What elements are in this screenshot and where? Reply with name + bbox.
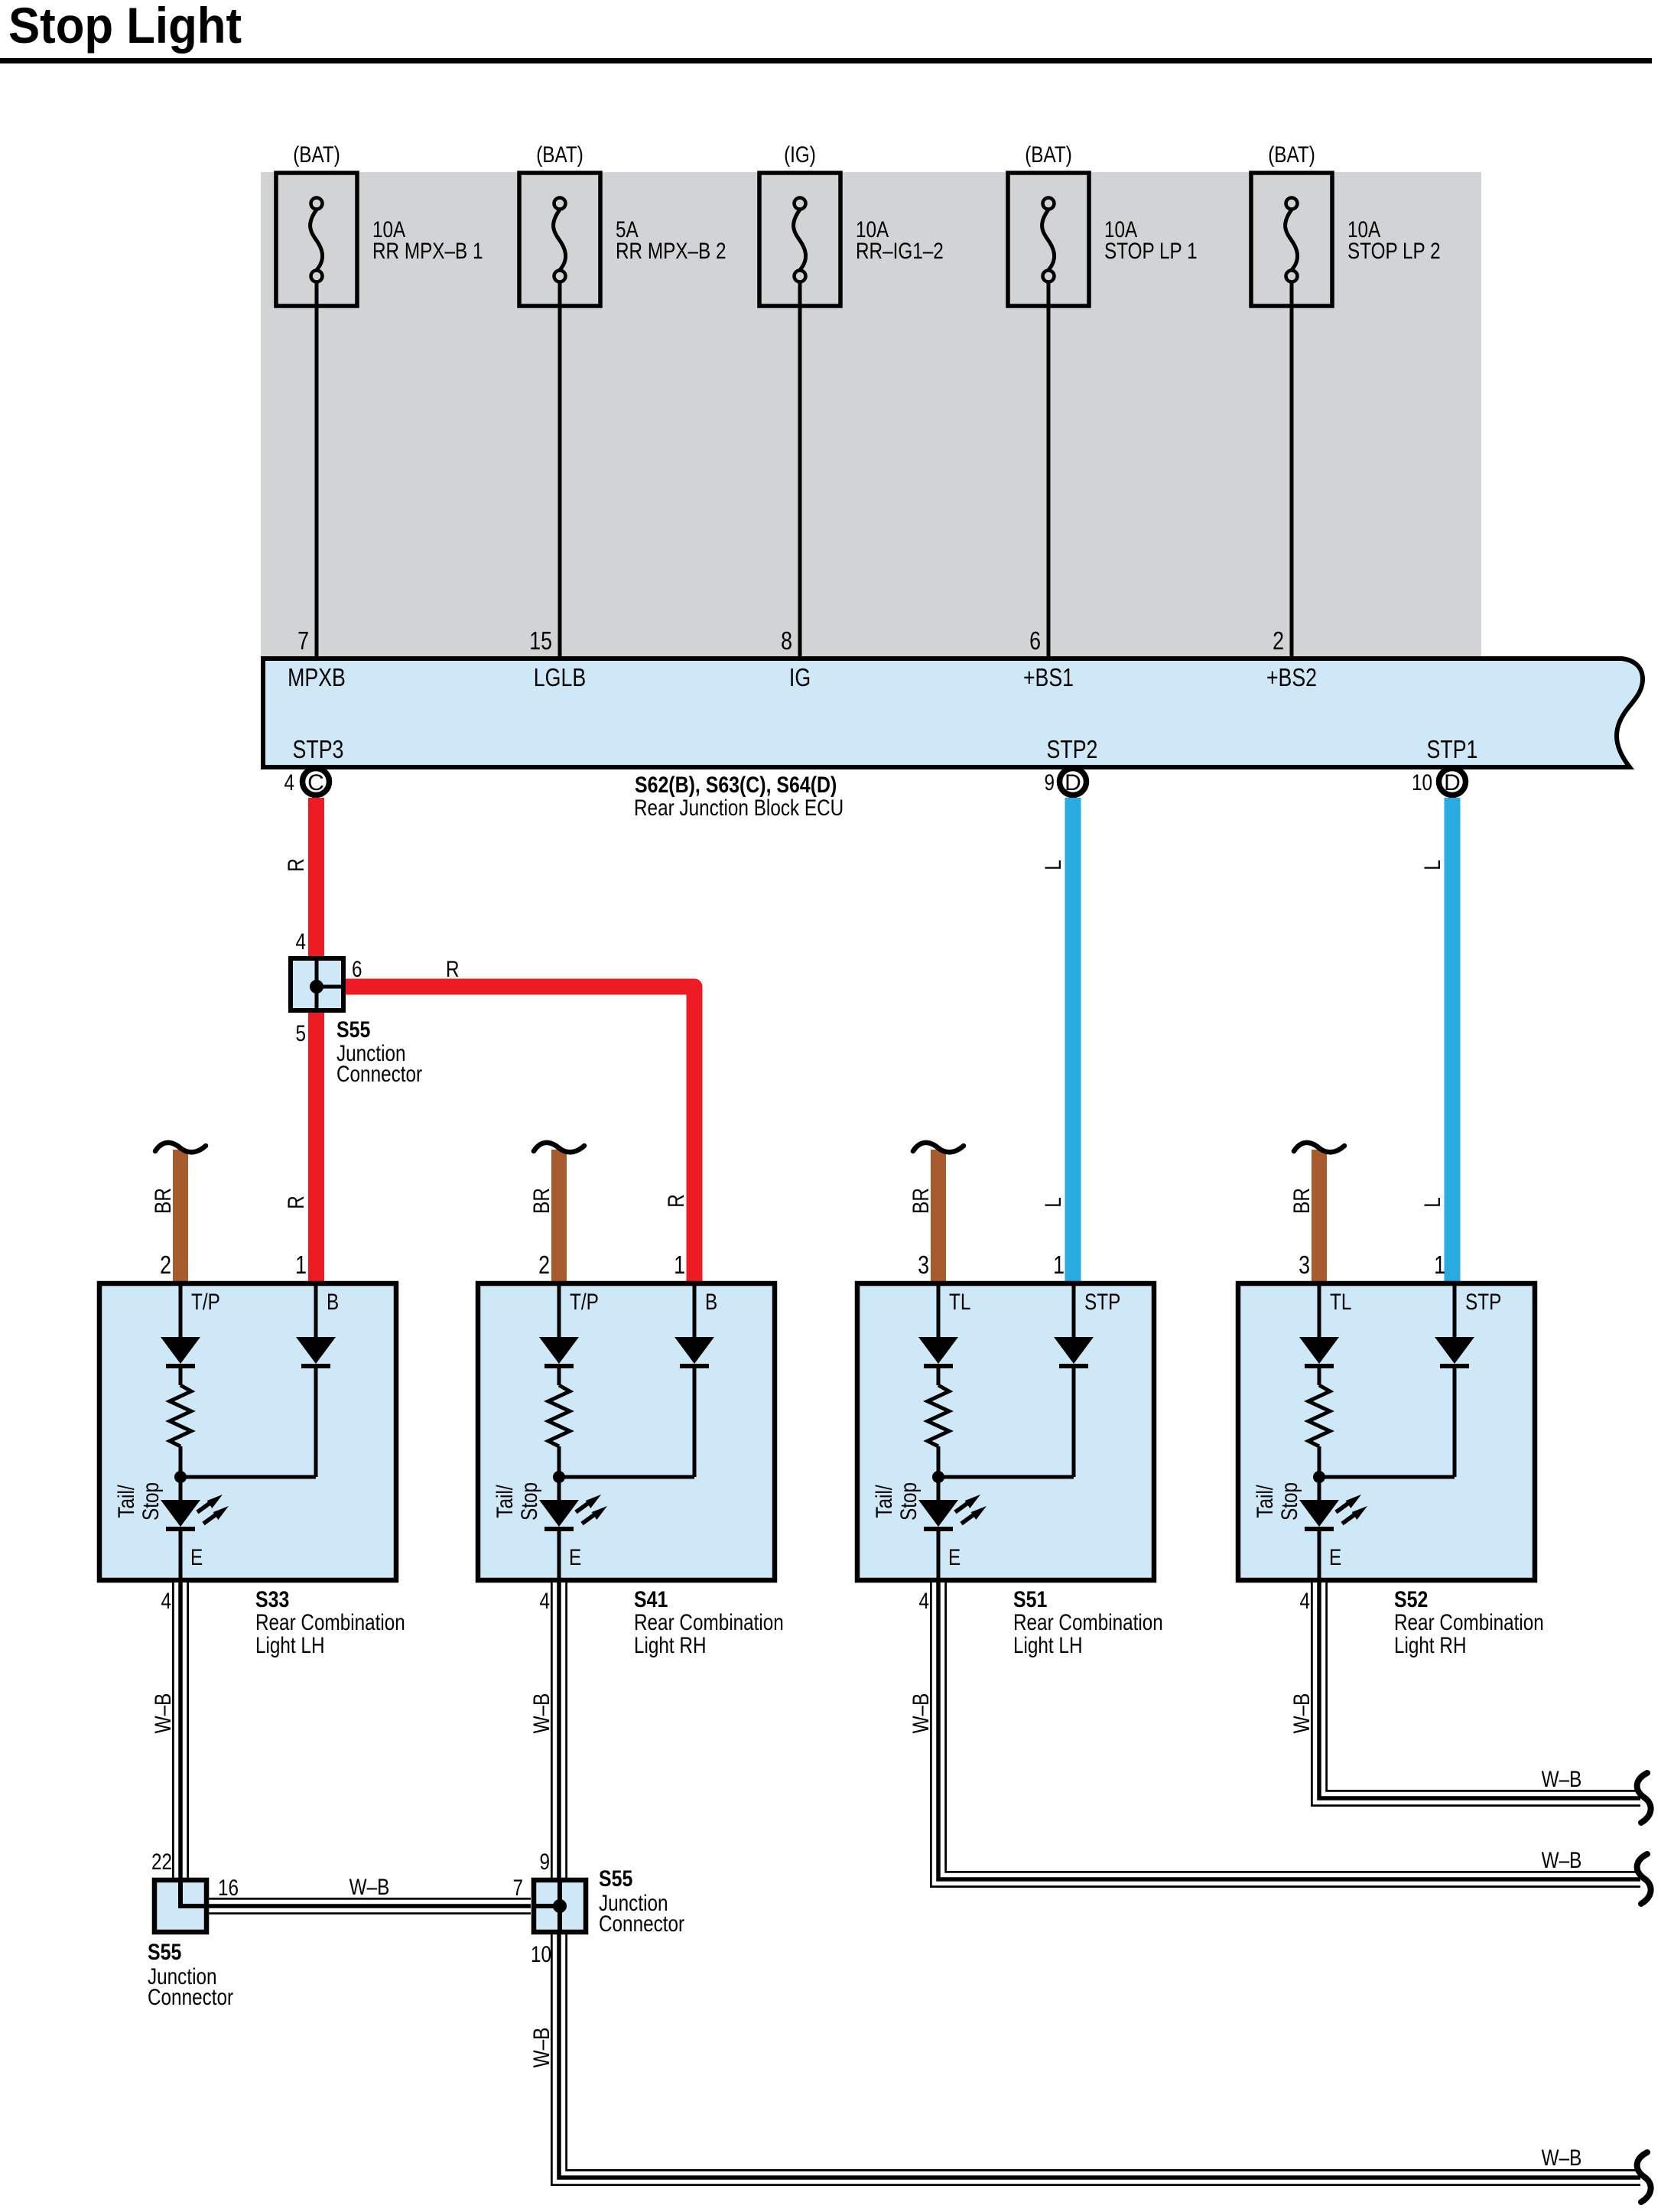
svg-text:W–B: W–B [909, 1693, 934, 1734]
svg-text:Light RH: Light RH [634, 1633, 707, 1658]
svg-text:Light RH: Light RH [1394, 1633, 1467, 1658]
svg-text:STOP LP 2: STOP LP 2 [1347, 239, 1441, 264]
svg-text:Connector: Connector [148, 1985, 233, 2010]
svg-text:W–B: W–B [1542, 2145, 1582, 2171]
svg-text:9: 9 [540, 1849, 551, 1875]
svg-text:(BAT): (BAT) [1268, 142, 1315, 168]
svg-text:15: 15 [529, 626, 552, 655]
svg-text:D: D [1065, 770, 1081, 795]
svg-text:Rear Combination: Rear Combination [1394, 1610, 1544, 1635]
svg-text:S62(B), S63(C), S64(D): S62(B), S63(C), S64(D) [635, 773, 837, 798]
svg-text:S52: S52 [1394, 1587, 1428, 1612]
svg-text:Tail/: Tail/ [492, 1485, 518, 1518]
svg-text:W–B: W–B [1542, 1848, 1582, 1873]
svg-text:C: C [307, 770, 324, 795]
svg-text:W–B: W–B [529, 2028, 554, 2068]
svg-text:E: E [1329, 1545, 1341, 1570]
svg-text:10: 10 [1412, 770, 1432, 795]
svg-text:LGLB: LGLB [534, 663, 586, 691]
svg-text:S55: S55 [599, 1866, 632, 1892]
svg-text:S41: S41 [634, 1587, 668, 1612]
svg-text:Stop: Stop [1277, 1482, 1302, 1521]
svg-text:TL: TL [949, 1290, 970, 1315]
svg-text:BR: BR [909, 1188, 934, 1214]
svg-text:L: L [1041, 1197, 1066, 1208]
svg-text:7: 7 [297, 626, 309, 655]
svg-text:Stop Light: Stop Light [8, 0, 242, 54]
svg-text:Stop: Stop [896, 1482, 922, 1521]
svg-text:STP1: STP1 [1427, 735, 1478, 763]
svg-text:22: 22 [151, 1849, 172, 1875]
svg-text:2: 2 [538, 1251, 550, 1279]
svg-text:4: 4 [919, 1589, 930, 1614]
svg-text:RR–IG1–2: RR–IG1–2 [856, 239, 944, 264]
svg-text:1: 1 [295, 1251, 307, 1279]
svg-text:E: E [190, 1545, 203, 1570]
svg-text:RR MPX–B 2: RR MPX–B 2 [616, 239, 726, 264]
svg-text:16: 16 [218, 1875, 239, 1901]
svg-text:4: 4 [540, 1589, 551, 1614]
svg-text:BR: BR [151, 1188, 176, 1214]
svg-text:4: 4 [284, 770, 295, 795]
svg-text:1: 1 [1434, 1251, 1445, 1279]
svg-text:Rear Combination: Rear Combination [255, 1610, 405, 1635]
svg-text:+BS2: +BS2 [1266, 663, 1317, 691]
svg-text:Tail/: Tail/ [872, 1485, 897, 1518]
svg-text:(BAT): (BAT) [1025, 142, 1072, 168]
svg-text:MPXB: MPXB [288, 663, 346, 691]
svg-text:1: 1 [674, 1251, 685, 1279]
svg-text:B: B [705, 1290, 717, 1315]
svg-text:W–B: W–B [1542, 1767, 1582, 1792]
svg-text:Rear Combination: Rear Combination [634, 1610, 784, 1635]
svg-text:E: E [569, 1545, 581, 1570]
svg-text:Light LH: Light LH [255, 1633, 325, 1658]
svg-text:6: 6 [1029, 626, 1041, 655]
svg-text:Tail/: Tail/ [1253, 1485, 1278, 1518]
svg-text:(BAT): (BAT) [293, 142, 340, 168]
svg-text:L: L [1420, 860, 1445, 870]
svg-text:W–B: W–B [151, 1693, 176, 1734]
svg-text:STP: STP [1084, 1290, 1120, 1315]
svg-text:R: R [284, 858, 309, 872]
svg-text:L: L [1041, 860, 1066, 870]
svg-text:IG: IG [789, 663, 811, 691]
svg-text:6: 6 [352, 957, 362, 982]
svg-text:E: E [948, 1545, 961, 1570]
svg-text:4: 4 [296, 929, 307, 955]
svg-text:4: 4 [1300, 1589, 1311, 1614]
svg-text:D: D [1444, 770, 1461, 795]
svg-text:10: 10 [531, 1942, 551, 1967]
svg-text:Rear Junction Block ECU: Rear Junction Block ECU [634, 795, 844, 821]
svg-text:7: 7 [513, 1875, 524, 1901]
svg-text:BR: BR [529, 1188, 554, 1214]
svg-text:Rear Combination: Rear Combination [1013, 1610, 1163, 1635]
svg-text:L: L [1420, 1197, 1445, 1208]
svg-text:Stop: Stop [138, 1482, 164, 1521]
svg-text:3: 3 [918, 1251, 929, 1279]
svg-text:S33: S33 [255, 1587, 289, 1612]
svg-text:3: 3 [1299, 1251, 1310, 1279]
svg-text:TL: TL [1330, 1290, 1351, 1315]
svg-text:+BS1: +BS1 [1023, 663, 1074, 691]
svg-text:R: R [664, 1194, 689, 1208]
svg-text:STP: STP [1465, 1290, 1501, 1315]
svg-text:STP2: STP2 [1047, 735, 1098, 763]
svg-text:5: 5 [296, 1021, 307, 1046]
svg-text:Connector: Connector [599, 1911, 684, 1937]
svg-text:S55: S55 [336, 1017, 370, 1043]
svg-text:Tail/: Tail/ [114, 1485, 139, 1518]
svg-text:BR: BR [1289, 1188, 1315, 1214]
svg-text:STP3: STP3 [293, 735, 344, 763]
svg-text:T/P: T/P [570, 1290, 599, 1315]
svg-text:S51: S51 [1013, 1587, 1047, 1612]
svg-text:RR MPX–B 1: RR MPX–B 1 [372, 239, 483, 264]
svg-text:B: B [327, 1290, 339, 1315]
svg-text:9: 9 [1045, 770, 1055, 795]
svg-text:T/P: T/P [191, 1290, 220, 1315]
svg-text:W–B: W–B [349, 1875, 390, 1900]
svg-text:1: 1 [1053, 1251, 1065, 1279]
svg-text:8: 8 [781, 626, 792, 655]
svg-text:S55: S55 [148, 1940, 181, 1965]
svg-text:(IG): (IG) [784, 142, 816, 168]
svg-text:Stop: Stop [517, 1482, 542, 1521]
svg-text:Connector: Connector [336, 1062, 422, 1087]
svg-text:(BAT): (BAT) [536, 142, 583, 168]
svg-text:R: R [446, 957, 460, 982]
svg-text:R: R [284, 1195, 309, 1209]
svg-text:W–B: W–B [1289, 1693, 1315, 1734]
svg-text:Light LH: Light LH [1013, 1633, 1083, 1658]
svg-text:W–B: W–B [529, 1693, 554, 1734]
svg-text:4: 4 [161, 1589, 172, 1614]
svg-text:2: 2 [1273, 626, 1284, 655]
svg-text:2: 2 [160, 1251, 171, 1279]
svg-text:STOP LP 1: STOP LP 1 [1104, 239, 1198, 264]
